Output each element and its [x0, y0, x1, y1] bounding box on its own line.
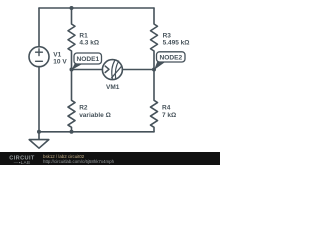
svg-text:4.3 kΩ: 4.3 kΩ — [79, 39, 99, 46]
resistor R4 — [151, 70, 158, 132]
node dot top rail — [70, 6, 74, 10]
junction dots — [37, 6, 156, 134]
wire bottom rail — [39, 131, 154, 133]
svg-text:R2: R2 — [79, 105, 88, 112]
svg-text:10 V: 10 V — [53, 59, 67, 66]
node dot ground junction — [37, 130, 41, 134]
wire meter to node2 — [122, 69, 154, 71]
resistor R1 — [68, 8, 75, 70]
resistor R2 — [68, 70, 75, 132]
wire top rail — [39, 7, 154, 9]
svg-text:VM1: VM1 — [106, 84, 120, 91]
svg-text:7 kΩ: 7 kΩ — [162, 112, 176, 119]
footer bar — [0, 152, 220, 165]
node dot NODE2 junction — [152, 68, 156, 72]
node dot NODE1 junction — [70, 68, 74, 72]
node flag NODE1 — [72, 53, 102, 70]
svg-text:NODE1: NODE1 — [76, 56, 99, 63]
svg-text:5.495 kΩ: 5.495 kΩ — [163, 39, 190, 46]
svg-text:V1: V1 — [53, 52, 61, 59]
ground — [29, 132, 49, 148]
svg-text:variable Ω: variable Ω — [79, 112, 111, 119]
voltage source V1 — [29, 47, 49, 67]
wire left rail lower — [38, 67, 40, 132]
svg-text:R4: R4 — [162, 105, 171, 112]
resistor R3 — [151, 8, 158, 70]
svg-text:http://circuitlab.com/c/6j58hk: http://circuitlab.com/c/6j58hk7x4mph — [43, 159, 115, 164]
wire node1 to meter — [72, 69, 103, 71]
svg-text:NODE2: NODE2 — [159, 55, 182, 62]
svg-text:—▪LAB: —▪LAB — [14, 160, 30, 165]
node dot R2 bottom — [70, 130, 74, 134]
voltmeter VM1 — [102, 60, 122, 80]
wire left rail upper — [38, 8, 40, 47]
node flag NODE2 — [154, 52, 185, 70]
voltage source V1 polarity marks — [36, 49, 43, 62]
